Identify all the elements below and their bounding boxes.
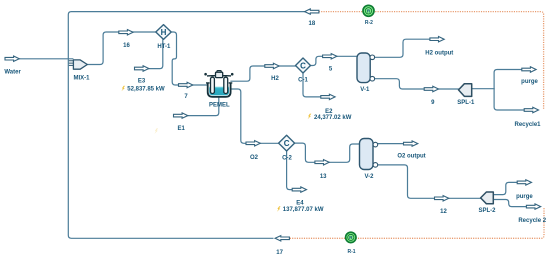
stream arrow O2 <box>246 141 260 146</box>
stream arrow 18 (points left) <box>305 9 319 14</box>
svg-text:C: C <box>300 61 306 70</box>
svg-text:C-1: C-1 <box>298 78 308 84</box>
wire V-2 to O2 output <box>378 143 404 145</box>
mixer MIX-1 <box>73 60 87 69</box>
svg-text:18: 18 <box>309 21 316 27</box>
splitter SPL-1 <box>459 84 472 97</box>
svg-text:HT-1: HT-1 <box>157 44 171 50</box>
wire E1 to PEMEL <box>187 97 219 115</box>
vessel V-1 <box>357 53 375 83</box>
mixer MIX-1 inlet stubs <box>69 61 74 66</box>
wire SPL-1 to purge (top) <box>494 70 522 89</box>
svg-text:E3: E3 <box>138 79 146 85</box>
stream arrow Water <box>5 56 19 61</box>
svg-text:O2: O2 <box>250 155 259 161</box>
energy icon E3 <box>121 86 125 92</box>
energy icon E2 <box>308 114 312 120</box>
stream arrow O2 output <box>404 141 418 146</box>
wire HT-1 to PEMEL (stream 7) <box>171 32 207 85</box>
stream arrow 9 <box>424 86 438 91</box>
PEMEL tub <box>208 83 231 97</box>
svg-text:C: C <box>284 139 290 148</box>
svg-text:H2: H2 <box>271 76 279 82</box>
PEMEL crossbar <box>207 75 231 77</box>
recycle block R-2 <box>363 5 374 16</box>
svg-text:V-1: V-1 <box>360 87 370 93</box>
PEMEL cap knob <box>217 71 221 74</box>
svg-text:Water: Water <box>4 70 21 76</box>
svg-text:R-1: R-1 <box>347 249 355 255</box>
stream arrow H2 <box>265 63 279 68</box>
stream arrow 7 <box>179 82 193 87</box>
svg-text:PEMEL: PEMEL <box>209 102 230 108</box>
energy arrow E1 <box>174 113 188 118</box>
PEMEL electrode left <box>211 77 215 93</box>
wire C-2 to E4 <box>287 151 293 190</box>
energy arrow E3 <box>135 66 149 71</box>
svg-text:16: 16 <box>123 43 130 49</box>
energy icon E4 <box>277 206 281 212</box>
wire SPL-2 to purge (bottom) <box>493 182 518 194</box>
wire SPL-1 to Recycle1 <box>494 89 524 110</box>
wire SPL-2 to Recycle 2 <box>493 200 527 207</box>
electrolyzer PEMEL <box>204 71 233 97</box>
PEMEL electrode right <box>224 77 228 93</box>
svg-text:H: H <box>161 28 167 37</box>
vessel V-2 <box>360 139 378 170</box>
wire V-2 to SPL-2 (stream 12) <box>378 165 482 198</box>
svg-text:purge: purge <box>521 79 538 85</box>
stream arrow Recycle1 <box>524 107 538 112</box>
svg-text:H2 output: H2 output <box>425 51 453 57</box>
stream arrow purge (top) <box>522 67 536 72</box>
svg-text:R-2: R-2 <box>365 20 373 26</box>
PEMEL cap <box>216 72 223 77</box>
svg-text:12: 12 <box>440 209 447 215</box>
wire Water to MIX-1 <box>19 58 74 60</box>
wire PEMEL to C-2 (stream O2) <box>230 89 279 143</box>
svg-text:O2 output: O2 output <box>397 154 425 160</box>
wire C-1 to E2 <box>303 73 321 97</box>
stream arrow purge (bottom) <box>517 180 531 185</box>
svg-text:137,877.07 kW: 137,877.07 kW <box>283 207 324 213</box>
wire E3 to HT-1 <box>147 39 163 68</box>
wire PEMEL to C-1 (stream H2) <box>230 66 296 81</box>
svg-text:V-2: V-2 <box>364 174 374 180</box>
compressor C-2 <box>279 135 295 151</box>
wire V-1 to SPL-1 (stream 9) <box>374 79 459 89</box>
stream arrow H2 output <box>430 37 444 42</box>
recycle dotted R-2 (Recycle1 to 18) <box>319 12 544 110</box>
splitter SPL-2 <box>481 192 494 204</box>
svg-text:E1: E1 <box>178 126 186 132</box>
stream arrow 13 <box>315 160 329 165</box>
svg-text:13: 13 <box>320 174 327 180</box>
wire C-2 to V-2 (stream 13) <box>294 143 360 162</box>
stream arrow 16 <box>119 30 133 35</box>
svg-text:52,837.85 kW: 52,837.85 kW <box>127 87 165 93</box>
energy icon E1 (faint) <box>154 128 158 134</box>
wire MIX-1 outlet to HT-1 (stream 16) <box>87 32 156 65</box>
wire recycle loop top+left+bottom (streams 18/17 to MIX-1) <box>68 12 305 239</box>
svg-text:purge: purge <box>516 194 533 200</box>
heater HT-1 <box>156 25 171 40</box>
PEMEL terminal dots <box>204 73 207 76</box>
stream arrow 17 (points left) <box>275 236 289 241</box>
svg-text:SPL-2: SPL-2 <box>478 208 496 214</box>
recycle dotted R-1 (Recycle 2 to 17) <box>290 207 544 238</box>
svg-text:17: 17 <box>276 250 283 256</box>
svg-text:Recycle 2: Recycle 2 <box>518 218 546 224</box>
svg-text:MIX-1: MIX-1 <box>73 75 90 81</box>
PEMEL liquid <box>209 87 229 96</box>
wire C-1 to V-1 (stream 5) <box>310 56 357 65</box>
stream arrow Recycle 2 <box>526 204 540 209</box>
stream arrow 12 <box>435 196 449 201</box>
svg-text:E4: E4 <box>296 201 304 207</box>
svg-text:24,377.02 kW: 24,377.02 kW <box>314 115 352 121</box>
recycle block R-1 <box>346 232 356 242</box>
svg-text:SPL-1: SPL-1 <box>457 100 475 106</box>
energy arrow E2 <box>321 94 335 99</box>
energy arrow E4 <box>292 187 306 192</box>
svg-text:C-2: C-2 <box>282 156 292 162</box>
stream arrow 5 <box>323 54 337 59</box>
compressor C-1 <box>296 58 311 73</box>
wire SPL-1 outlet junction <box>471 88 495 90</box>
svg-text:Recycle1: Recycle1 <box>514 122 541 128</box>
wire V-1 to H2 output <box>374 39 430 57</box>
